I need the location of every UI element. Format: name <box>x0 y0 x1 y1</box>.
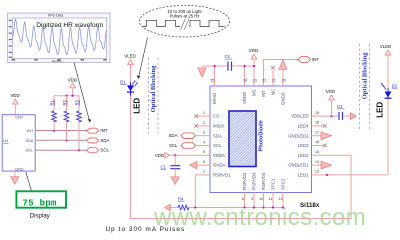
svg-text:D2: D2 <box>392 83 398 88</box>
svg-text:MISO: MISO <box>213 124 225 129</box>
svg-text:C1: C1 <box>161 165 167 170</box>
svg-text:LED3: LED3 <box>298 143 309 148</box>
svg-text:24: 24 <box>243 78 247 82</box>
svg-text:R3: R3 <box>74 99 79 105</box>
svg-text:XPC2: XPC2 <box>281 178 286 190</box>
svg-text:INT: INT <box>27 128 34 133</box>
svg-text:PhotoDiode: PhotoDiode <box>259 120 265 151</box>
svg-text:GNDA: GNDA <box>213 163 226 168</box>
svg-text:D1: D1 <box>120 80 126 85</box>
svg-text:RSRVD2: RSRVD2 <box>242 172 247 190</box>
svg-text:VDD: VDD <box>68 78 77 83</box>
svg-text:Digitized HR waveform: Digitized HR waveform <box>36 22 104 29</box>
svg-text:SDA: SDA <box>213 133 222 138</box>
svg-text:2: 2 <box>203 121 205 125</box>
svg-text:VDDA: VDDA <box>213 153 225 158</box>
svg-text:Si118x: Si118x <box>300 202 320 209</box>
svg-text:6: 6 <box>203 160 205 164</box>
svg-text:LED1: LED1 <box>298 173 309 178</box>
svg-text:9: 9 <box>251 197 253 201</box>
svg-text:RSRVD4: RSRVD4 <box>261 172 266 190</box>
svg-text:15: 15 <box>315 150 319 154</box>
svg-text:INT: INT <box>261 90 266 97</box>
svg-text:SCL: SCL <box>169 143 178 148</box>
svg-text:LED4: LED4 <box>298 124 309 129</box>
svg-text:11: 11 <box>269 197 273 201</box>
svg-text:7: 7 <box>203 170 205 174</box>
svg-text:14: 14 <box>315 160 319 164</box>
svg-text:Sample: Sample <box>52 59 63 63</box>
svg-text:CS: CS <box>213 114 219 119</box>
svg-text:RSRVD3: RSRVD3 <box>252 172 257 190</box>
svg-text:VDD: VDD <box>155 153 164 158</box>
svg-text:LED2: LED2 <box>298 153 309 158</box>
svg-text:5: 5 <box>203 150 205 154</box>
svg-text:SDA: SDA <box>100 138 109 143</box>
svg-text:VDDLED: VDDLED <box>291 114 308 119</box>
svg-text:R1: R1 <box>49 99 54 105</box>
svg-text:1: 1 <box>203 111 205 115</box>
svg-text:18: 18 <box>315 121 319 125</box>
svg-text:INT: INT <box>100 128 107 133</box>
svg-text:R2: R2 <box>62 99 67 105</box>
svg-text:LED: LED <box>133 98 142 114</box>
svg-text:PPG Data: PPG Data <box>48 13 63 17</box>
svg-text:VLED: VLED <box>380 44 391 49</box>
svg-text:VDD: VDD <box>15 115 23 120</box>
svg-text:SCL: SCL <box>100 148 109 153</box>
svg-text:25: 25 <box>210 78 214 82</box>
svg-text:Optical Blocking: Optical Blocking <box>361 52 368 100</box>
svg-text:75 bpm: 75 bpm <box>22 197 57 208</box>
svg-text:VDDD: VDDD <box>242 92 247 104</box>
svg-text:GND: GND <box>15 167 24 172</box>
svg-text:16: 16 <box>315 140 319 144</box>
svg-text:SCL: SCL <box>213 143 222 148</box>
svg-text:MS: MS <box>252 89 257 96</box>
svg-text:VDD: VDD <box>326 89 335 94</box>
svg-text:C2: C2 <box>225 54 231 59</box>
svg-text:INT: INT <box>312 57 319 62</box>
svg-text:GNDLED1: GNDLED1 <box>288 163 309 168</box>
svg-text:Up to 300 mA Pulses: Up to 300 mA Pulses <box>106 226 186 233</box>
svg-text:GNDLED2: GNDLED2 <box>288 133 309 138</box>
svg-text:21: 21 <box>272 78 276 82</box>
svg-text:GNDD: GNDD <box>281 92 286 105</box>
svg-text:12: 12 <box>279 197 283 201</box>
svg-text:R4: R4 <box>178 196 184 201</box>
svg-text:4: 4 <box>203 140 205 144</box>
svg-text:NC: NC <box>271 89 276 95</box>
svg-text:VDD: VDD <box>10 93 19 98</box>
svg-text:RSRVD1: RSRVD1 <box>213 173 231 178</box>
svg-text:22: 22 <box>262 78 266 82</box>
svg-text:VDD: VDD <box>249 48 258 53</box>
svg-text:13: 13 <box>315 170 319 174</box>
svg-text:20: 20 <box>282 78 286 82</box>
svg-text:C3: C3 <box>337 104 343 109</box>
svg-text:3: 3 <box>203 131 205 135</box>
svg-text:SDA: SDA <box>168 133 177 138</box>
svg-text:Optical Blocking: Optical Blocking <box>150 65 157 113</box>
svg-text:SCL: SCL <box>26 148 34 153</box>
svg-text:EPAD: EPAD <box>212 93 217 104</box>
svg-text:Pulses at 25 Hz: Pulses at 25 Hz <box>169 14 199 19</box>
svg-text:SDA: SDA <box>25 138 33 143</box>
svg-text:LED: LED <box>376 102 385 118</box>
svg-text:Display: Display <box>30 213 51 220</box>
svg-text:8: 8 <box>242 197 244 201</box>
svg-text:19: 19 <box>315 111 319 115</box>
svg-text:U1: U1 <box>3 138 9 143</box>
svg-text:23: 23 <box>253 78 257 82</box>
svg-text:17: 17 <box>315 130 319 134</box>
svg-text:VLED: VLED <box>124 54 135 59</box>
svg-text:10: 10 <box>259 197 263 201</box>
svg-text:XPC1: XPC1 <box>271 178 276 190</box>
